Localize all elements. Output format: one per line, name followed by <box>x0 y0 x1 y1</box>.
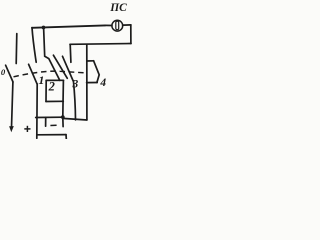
svg-text:4: 4 <box>99 77 106 89</box>
svg-text:ПС: ПС <box>109 2 127 14</box>
svg-text:1: 1 <box>38 73 44 87</box>
svg-text:0: 0 <box>1 67 6 77</box>
svg-text:3: 3 <box>72 79 79 91</box>
svg-text:2: 2 <box>48 80 55 94</box>
